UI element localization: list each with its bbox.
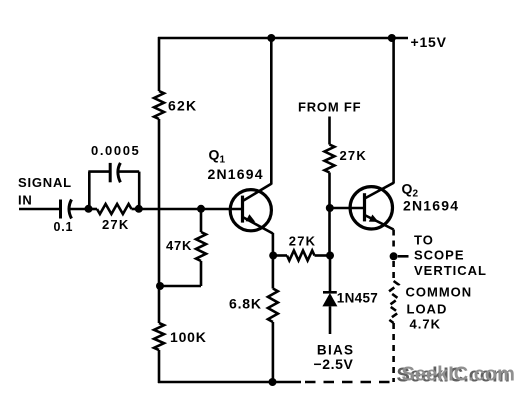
svg-text:0.1: 0.1 bbox=[54, 220, 74, 234]
svg-text:VERTICAL: VERTICAL bbox=[414, 263, 487, 278]
svg-text:27K: 27K bbox=[102, 217, 129, 232]
svg-text:−2.5V: −2.5V bbox=[314, 356, 354, 372]
svg-text:IN: IN bbox=[18, 193, 33, 208]
svg-text:62K: 62K bbox=[168, 97, 197, 113]
svg-text:BIAS: BIAS bbox=[317, 342, 354, 357]
svg-text:4.7K: 4.7K bbox=[410, 317, 441, 332]
svg-text:FROM FF: FROM FF bbox=[298, 100, 361, 115]
svg-text:Q: Q bbox=[402, 180, 413, 196]
svg-text:6.8K: 6.8K bbox=[229, 296, 262, 312]
svg-text:SCOPE: SCOPE bbox=[414, 248, 465, 263]
svg-text:2N1694: 2N1694 bbox=[403, 198, 459, 214]
svg-text:47K: 47K bbox=[166, 238, 192, 253]
svg-text:SeekIC.com: SeekIC.com bbox=[402, 364, 515, 386]
svg-text:0.0005: 0.0005 bbox=[91, 143, 140, 158]
svg-text:Q: Q bbox=[209, 146, 220, 162]
svg-text:27K: 27K bbox=[340, 148, 367, 163]
svg-text:COMMON: COMMON bbox=[406, 285, 473, 300]
svg-text:27K: 27K bbox=[289, 233, 316, 248]
svg-text:TO: TO bbox=[414, 232, 434, 247]
svg-text:+15V: +15V bbox=[411, 34, 447, 50]
svg-text:LOAD: LOAD bbox=[407, 302, 448, 317]
svg-text:2N1694: 2N1694 bbox=[208, 166, 264, 182]
svg-text:1N457: 1N457 bbox=[337, 290, 378, 305]
svg-text:1: 1 bbox=[220, 155, 226, 166]
svg-text:SIGNAL: SIGNAL bbox=[18, 175, 72, 190]
svg-text:100K: 100K bbox=[170, 329, 207, 345]
